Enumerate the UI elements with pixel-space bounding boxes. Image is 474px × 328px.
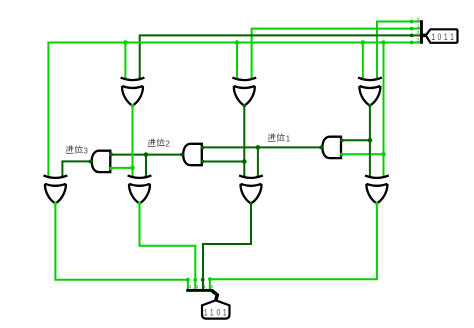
junction net B3 / XOR U1 column <box>123 40 128 45</box>
wire net B3 (bit3=1 bus, top row and left edge down to XOR U4 input a) <box>48 43 412 178</box>
wire net X3 (XOR U3 out=0) down to XOR U7 input a <box>369 106 371 178</box>
junction net B3 / XOR U3 column <box>361 40 366 45</box>
wire net C2 carry2 (AND G2 out=0) to AND G3 input a <box>111 154 183 156</box>
label carry3 "进位3" <box>66 146 88 156</box>
splitter SP1 root stub to pin P1 <box>422 34 428 38</box>
splitter SP1 bit labels <box>417 16 420 42</box>
junction net X3 / AND G1 input a <box>368 138 373 143</box>
svg-text:1: 1 <box>431 32 435 42</box>
junction net B3 riser / AND G1 input b <box>381 152 386 157</box>
wire net S1 (XOR U6 out=0) to splitter SP2 branch 1 <box>203 203 251 289</box>
wire net S0 (XOR U7 out=1) to splitter SP2 branch 0 <box>210 203 377 289</box>
AND gate G3 (left, carry3) <box>92 151 111 172</box>
XOR gate U2 (top middle) <box>232 78 256 106</box>
wire net X3 branch to AND G1 input a <box>342 139 370 141</box>
svg-text:1: 1 <box>444 32 448 42</box>
wire net X2 (XOR U2 out=0) down to XOR U6 input a <box>243 106 245 178</box>
XOR U6 input tips <box>243 175 246 178</box>
wire net C2 branch down to XOR U5 input b <box>145 155 147 178</box>
wire net X1 (XOR U1 out=1) down to XOR U5 input a <box>132 106 134 178</box>
svg-text:1: 1 <box>450 32 454 42</box>
XOR gate U3 (top right) <box>358 78 382 106</box>
wire net X2 branch to AND G2 input b <box>203 161 245 163</box>
input pin P2 value 1101 <box>202 300 230 318</box>
junction net C2 / drop to XOR U5 <box>144 152 149 157</box>
svg-text:1: 1 <box>223 307 227 317</box>
junction net X2 / AND G2 input b <box>242 159 247 164</box>
svg-text:1: 1 <box>210 307 214 317</box>
wire net B3 branch to XOR U3 input a <box>362 43 364 79</box>
label carry1 "进位1" <box>268 134 291 144</box>
wire net C1 carry1 (AND G1 out=0) to AND G2 input a <box>203 146 323 148</box>
AND gate G1 (right, carry1) <box>322 137 341 158</box>
svg-text:1: 1 <box>286 134 291 143</box>
wire net B3 branch right riser to XOR U7 input b <box>383 43 385 178</box>
wire net B1 (bit1=1, pin A to XOR U2 input b) <box>252 29 412 79</box>
AND gate G2 (middle, carry2) <box>183 144 202 165</box>
XOR U7 input tips <box>368 175 371 178</box>
wire net B0 (bit0=1, pin A to XOR U3 input b) <box>377 22 412 79</box>
wire net C1 branch down to XOR U6 input b <box>257 147 259 177</box>
XOR gate U4 (bottom far left) <box>44 175 68 203</box>
label carry2 "进位2" <box>148 139 170 149</box>
junction net B3 / right riser <box>381 40 386 45</box>
svg-text:1: 1 <box>204 307 208 317</box>
output pin P1 value 1011 <box>426 29 458 43</box>
splitter SP2 wire end dots <box>186 278 190 282</box>
wire net C3 carry3 (AND G3 out=0) to XOR U4 input b <box>62 161 91 177</box>
wire net B2 (bit2=0, pin A to XOR U1 input b) <box>140 35 412 78</box>
splitter SP1 wire end dots <box>410 20 414 24</box>
XOR gate U1 (top left) <box>121 78 145 106</box>
XOR U1 input tips <box>124 77 127 80</box>
svg-text:0: 0 <box>438 32 442 42</box>
svg-text:0: 0 <box>217 307 221 317</box>
splitter SP2 branch stub bit1 <box>202 280 204 290</box>
splitter SP1 branch lines <box>412 22 421 43</box>
XOR gate U7 (bottom right) <box>365 175 389 203</box>
XOR U3 input tips <box>361 77 364 80</box>
XOR U4 input tips <box>47 175 50 178</box>
junction net C1 / drop to XOR U6 <box>256 145 261 150</box>
junction net B3 / XOR U2 column <box>235 40 240 45</box>
wire net B3 branch to AND G1 input b <box>342 153 384 155</box>
XOR gate U6 (bottom middle) <box>239 175 263 203</box>
splitter SP2 bit labels <box>189 284 214 289</box>
splitter SP2 root stub to pin P2 <box>212 290 218 300</box>
XOR gate U5 (bottom left-middle) <box>128 175 152 203</box>
wire net B3 branch to XOR U2 input a <box>236 43 238 79</box>
svg-text:2: 2 <box>165 140 170 149</box>
splitter SP1 spine <box>420 20 423 44</box>
wire net B3 branch to XOR U1 input a <box>124 43 126 79</box>
XOR U5 input tips <box>131 175 134 178</box>
splitter SP2 spine <box>186 289 213 292</box>
junction net X1 / AND G3 input b <box>130 166 135 171</box>
wire net S2 (XOR U5 out=1) to splitter SP2 branch 2 <box>140 203 196 289</box>
XOR U2 input tips <box>236 77 239 80</box>
svg-text:3: 3 <box>83 146 88 155</box>
wire net X1 branch to AND G3 input b <box>111 167 132 169</box>
wire net S3 (XOR U4 out=1) to splitter SP2 branch 3 <box>55 203 188 289</box>
